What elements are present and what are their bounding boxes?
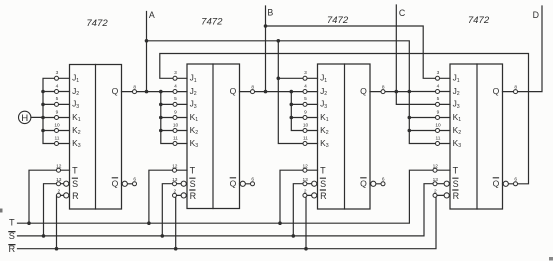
svg-text:11: 11 [303, 135, 308, 141]
svg-text:3: 3 [56, 70, 59, 76]
svg-text:Q: Q [230, 179, 237, 189]
svg-text:6: 6 [514, 177, 517, 183]
svg-text:S: S [453, 179, 459, 189]
svg-text:Q: Q [360, 179, 367, 189]
svg-text:S: S [72, 179, 78, 189]
svg-text:R: R [8, 244, 15, 254]
svg-text:Q: Q [230, 86, 237, 96]
svg-text:S: S [9, 231, 15, 241]
svg-text:R: R [190, 191, 197, 201]
svg-text:10: 10 [435, 122, 441, 128]
svg-text:S: S [190, 179, 196, 189]
svg-text:8: 8 [133, 84, 136, 90]
svg-text:9: 9 [437, 109, 440, 115]
svg-text:3: 3 [174, 70, 177, 76]
svg-text:3: 3 [437, 70, 440, 76]
svg-text:2: 2 [304, 189, 307, 195]
svg-text:Q: Q [493, 86, 500, 96]
svg-text:Q: Q [360, 86, 367, 96]
svg-text:8: 8 [251, 84, 254, 90]
svg-text:5: 5 [56, 96, 59, 102]
svg-text:T: T [190, 166, 196, 176]
svg-text:12: 12 [172, 163, 178, 169]
svg-text:T: T [72, 166, 78, 176]
svg-text:S: S [320, 179, 326, 189]
svg-text:T: T [9, 218, 15, 228]
svg-text:5: 5 [174, 96, 177, 102]
svg-text:3: 3 [304, 70, 307, 76]
svg-text:13: 13 [172, 177, 178, 183]
svg-text:2: 2 [173, 189, 176, 195]
svg-text:13: 13 [56, 177, 62, 183]
svg-text:4: 4 [174, 83, 177, 89]
svg-text:5: 5 [304, 96, 307, 102]
svg-text:T: T [453, 166, 459, 176]
svg-text:10: 10 [54, 122, 60, 128]
svg-text:A: A [149, 10, 155, 20]
svg-text:4: 4 [437, 83, 440, 89]
svg-text:R: R [72, 191, 79, 201]
svg-text:7472: 7472 [327, 15, 349, 26]
svg-text:R: R [453, 191, 460, 201]
svg-text:9: 9 [174, 109, 177, 115]
svg-text:6: 6 [133, 177, 136, 183]
svg-text:7472: 7472 [468, 15, 490, 26]
svg-text:4: 4 [56, 83, 59, 89]
svg-text:Q: Q [493, 179, 500, 189]
svg-text:13: 13 [303, 177, 309, 183]
svg-text:7472: 7472 [86, 18, 108, 29]
svg-text:Q: Q [112, 86, 119, 96]
svg-text:10: 10 [173, 122, 179, 128]
svg-text:9: 9 [56, 109, 59, 115]
svg-text:8: 8 [382, 84, 385, 90]
svg-text:T: T [320, 166, 326, 176]
svg-text:11: 11 [173, 135, 178, 141]
svg-text:B: B [267, 8, 273, 18]
svg-text:8: 8 [514, 84, 517, 90]
svg-text:H: H [21, 113, 28, 124]
svg-text:12: 12 [56, 163, 62, 169]
svg-text:11: 11 [55, 135, 60, 141]
svg-text:Q: Q [112, 179, 119, 189]
svg-text:2: 2 [57, 189, 60, 195]
svg-text:5: 5 [437, 96, 440, 102]
svg-text:6: 6 [251, 177, 254, 183]
svg-text:11: 11 [436, 135, 441, 141]
svg-text:7472: 7472 [201, 17, 223, 28]
svg-text:13: 13 [433, 177, 439, 183]
svg-text:10: 10 [303, 122, 309, 128]
svg-text:6: 6 [382, 177, 385, 183]
svg-text:D: D [533, 10, 539, 20]
svg-text:R: R [320, 191, 327, 201]
svg-text:C: C [399, 8, 406, 18]
svg-text:12: 12 [433, 163, 439, 169]
svg-text:12: 12 [303, 163, 309, 169]
svg-text:2: 2 [434, 189, 437, 195]
svg-text:4: 4 [304, 83, 307, 89]
svg-text:9: 9 [304, 109, 307, 115]
